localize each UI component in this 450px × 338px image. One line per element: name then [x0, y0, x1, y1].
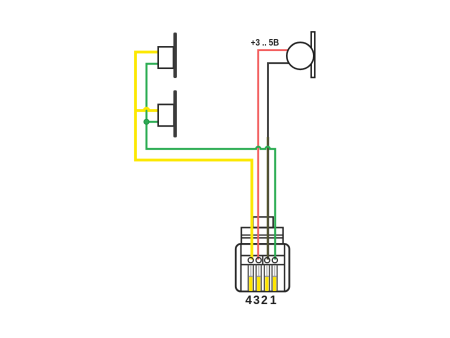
- svg-text:1: 1: [270, 293, 277, 307]
- svg-text:2: 2: [261, 293, 268, 307]
- svg-text:3: 3: [253, 293, 260, 307]
- svg-text:+3 .. 5В: +3 .. 5В: [251, 38, 280, 48]
- svg-text:4: 4: [245, 293, 252, 307]
